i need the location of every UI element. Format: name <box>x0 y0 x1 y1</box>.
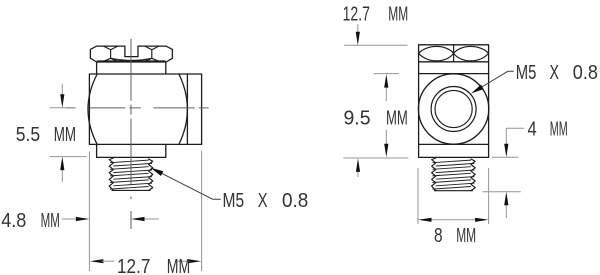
leader M5 X 0.8 left <box>153 169 221 199</box>
dim 4 up arrow <box>505 204 507 219</box>
dim 9.5 down arrow <box>385 130 387 146</box>
svg-text:M5: M5 <box>516 61 537 84</box>
right hex lens <box>454 46 489 60</box>
left hex lens <box>419 46 454 60</box>
hex head bottom chamfer line <box>97 60 165 62</box>
hex head outline with slot <box>90 46 172 62</box>
leader M5 X 0.8 right <box>474 71 514 92</box>
dim 12.7 left arrow <box>90 259 104 263</box>
dim 5.5 up arrow <box>61 162 63 182</box>
dim 5.5 top extension line <box>50 107 76 109</box>
svg-text:4.8: 4.8 <box>1 209 26 232</box>
dim 4 bottom extension line <box>482 191 520 193</box>
svg-text:9.5: 9.5 <box>344 106 371 129</box>
dim 8 right arrow <box>475 218 489 222</box>
svg-text:X: X <box>550 61 560 84</box>
svg-text:M5: M5 <box>223 189 245 212</box>
right stud bottom edge <box>434 190 472 192</box>
svg-text:0.8: 0.8 <box>282 189 308 212</box>
body tab edge line <box>186 74 188 144</box>
dim 12.7 down arrow <box>357 24 359 34</box>
right stud left edge <box>432 158 436 191</box>
dim 4.8 dimension line + right arrow at body edge <box>62 218 79 220</box>
washer under head <box>97 62 166 74</box>
dim 12.7/9.5 bottom shared extension line <box>343 157 408 159</box>
svg-text:MM: MM <box>388 2 408 25</box>
dim 9.5 up arrow <box>385 86 387 102</box>
dim 4 top extension line <box>492 156 518 158</box>
body top line <box>419 73 489 75</box>
dim 4.8 left arrow at centerline <box>142 218 159 220</box>
svg-text:4: 4 <box>528 117 537 140</box>
svg-text:MM: MM <box>456 224 476 247</box>
stud bottom edge <box>112 189 150 191</box>
extension line body right edge <box>201 151 203 272</box>
hex head left facet bowtie <box>104 46 118 61</box>
right stud right edge <box>471 159 475 191</box>
dim 12.7 right arrow <box>188 259 202 263</box>
thread outer circle M5 hole <box>431 87 476 132</box>
dim 4 top elbow and text <box>506 128 524 145</box>
dim 5.5 down arrow <box>61 84 63 102</box>
threaded stud right edge <box>149 159 153 190</box>
body right barrel arc <box>179 74 188 144</box>
right thread crest lines <box>432 160 474 189</box>
dim 9.5 top extension line <box>373 73 399 75</box>
svg-text:12.7: 12.7 <box>343 2 370 25</box>
dim 12.7 top extension line <box>344 44 408 46</box>
body block outline <box>89 74 201 144</box>
hex head middle facet shallow arc <box>111 58 152 60</box>
extension line body left edge <box>88 152 90 272</box>
svg-text:X: X <box>258 189 268 212</box>
svg-text:MM: MM <box>386 106 408 129</box>
threaded stud left edge <box>109 158 113 190</box>
hex head right facet bowtie <box>145 46 159 61</box>
body left barrel arc <box>88 74 97 144</box>
svg-text:5.5: 5.5 <box>16 123 40 146</box>
dim 8 right extension line <box>488 168 490 224</box>
horizontal centerline <box>66 107 209 109</box>
neck below body <box>97 144 166 157</box>
dim 8 left arrow <box>418 218 432 222</box>
big circle (barrel silhouette) <box>418 74 488 144</box>
thread inner circle M5 hole <box>435 90 472 127</box>
dim 8 left extension line <box>417 168 419 224</box>
thread crest lines <box>110 160 152 189</box>
svg-text:8: 8 <box>434 224 443 247</box>
dim 5.5 bottom extension line <box>50 156 87 158</box>
hex facet division <box>453 45 455 62</box>
vertical centerline <box>130 39 132 229</box>
svg-text:12.7: 12.7 <box>117 255 150 275</box>
dim 12.7 up arrow bottom <box>357 170 359 178</box>
head bottom line <box>419 61 489 63</box>
body bottom line <box>419 143 489 145</box>
dim 8 dimension line <box>430 219 477 221</box>
svg-text:0.8: 0.8 <box>573 61 598 84</box>
svg-text:MM: MM <box>54 123 76 146</box>
svg-text:MM: MM <box>41 209 60 232</box>
svg-text:MM: MM <box>167 255 190 275</box>
svg-text:MM: MM <box>550 117 568 140</box>
outer block outline <box>419 45 489 158</box>
